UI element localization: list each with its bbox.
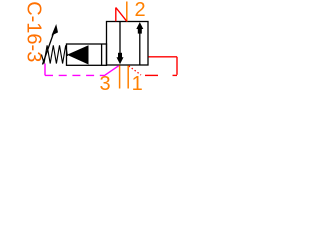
down arrow shaft [119, 22, 121, 55]
up arrow neck [138, 29, 142, 34]
svg-text:1: 1 [132, 73, 143, 95]
adjustment arrow shaft [43, 29, 56, 65]
actuator box [67, 44, 107, 65]
red dotted diagonal to port 1 [129, 66, 141, 75]
magenta pilot dashed horizontal [45, 74, 104, 76]
down arrow head [117, 57, 124, 64]
magenta pilot vertical [44, 64, 46, 76]
red pilot path vertical right [176, 57, 178, 75]
spring [42, 45, 68, 63]
up arrow head [136, 22, 143, 29]
magenta pilot diagonal [104, 66, 119, 76]
svg-text:C-16-3: C-16-3 [23, 1, 45, 62]
svg-text:3: 3 [99, 73, 110, 95]
red pilot dash mid [145, 74, 158, 76]
valve square [107, 22, 149, 66]
svg-text:2: 2 [134, 0, 145, 21]
red mark diagonal [116, 8, 127, 22]
actuator box inner divider [101, 44, 103, 65]
down arrow neck [118, 53, 122, 58]
red pilot path horizontal top [149, 56, 178, 58]
port 2 line [126, 2, 128, 22]
red mark vertical [115, 8, 117, 22]
port 1 line [127, 66, 129, 89]
port 3 line [119, 66, 121, 89]
up arrow shaft [139, 31, 141, 65]
adjustment arrow head [51, 24, 58, 36]
actuator triangle [67, 45, 89, 64]
red pilot dash right [173, 74, 178, 76]
